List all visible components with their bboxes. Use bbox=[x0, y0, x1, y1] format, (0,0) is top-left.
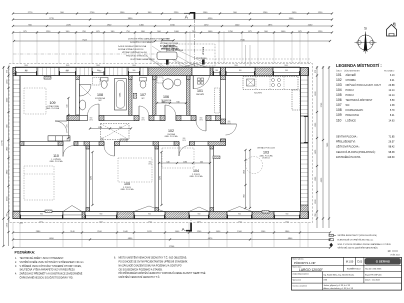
svg-text:Vypracoval: Vypracoval bbox=[293, 278, 302, 281]
svg-text:800: 800 bbox=[101, 138, 104, 140]
svg-text:ÚČEL MÍSTNOSTI: ÚČEL MÍSTNOSTI bbox=[344, 70, 360, 73]
svg-text:CELKOVÁ PLOCHA (PODLAHOVÁ) :: CELKOVÁ PLOCHA (PODLAHOVÁ) : bbox=[336, 151, 376, 154]
terrace door 110 bbox=[63, 212, 82, 219]
svg-text:TECHNICKÁ MÍSTNOST: TECHNICKÁ MÍSTNOST bbox=[346, 99, 373, 102]
svg-text:800: 800 bbox=[200, 118, 203, 120]
interior dim chain hallway bbox=[90, 128, 131, 130]
svg-text:900: 900 bbox=[285, 70, 288, 72]
svg-text:1970: 1970 bbox=[100, 140, 104, 142]
interior dim chain room 104 bbox=[161, 152, 163, 205]
svg-text:106: 106 bbox=[163, 95, 169, 99]
svg-text:ZÁDVEŘÍ: ZÁDVEŘÍ bbox=[196, 93, 204, 96]
svg-text:110: 110 bbox=[336, 118, 342, 122]
svg-text:2640: 2640 bbox=[238, 222, 242, 224]
svg-text:MÍSTNOST: MÍSTNOST bbox=[161, 101, 171, 104]
tech room 106 equipment bbox=[163, 79, 173, 89]
svg-text:8.21: 8.21 bbox=[390, 114, 395, 117]
svg-text:107: 107 bbox=[140, 93, 146, 97]
house logo icon bbox=[387, 25, 397, 37]
svg-text:+400: +400 bbox=[19, 223, 23, 225]
svg-text:960: 960 bbox=[244, 194, 246, 197]
dimension line bottom row 3 bbox=[13, 247, 330, 249]
svg-text:PO DOHODĚ SE SVÝM PROJEKTANTEM: PO DOHODĚ SE SVÝM PROJEKTANTEM UPŘESNÍ S… bbox=[119, 261, 188, 264]
svg-text:Adresa, obec/město, p.č. XX,: Adresa, obec/město, p.č. XX, k.ú. XX bbox=[324, 287, 354, 290]
svg-text:17246: 17246 bbox=[169, 246, 175, 248]
svg-text:2640: 2640 bbox=[99, 222, 103, 224]
dimension line left col 2 bbox=[8, 66, 10, 246]
svg-text:1970: 1970 bbox=[199, 119, 203, 121]
furniture dashed outlines bbox=[24, 166, 54, 200]
svg-text:ZÁKL. PLOCHA: ZÁKL. PLOCHA bbox=[165, 135, 179, 138]
svg-text:VOŠK 2002: VOŠK 2002 bbox=[390, 253, 400, 256]
bathroom 108 fixtures (tub, WC, shower, basin, washer) bbox=[115, 79, 127, 111]
canopy gable outline bbox=[184, 64, 195, 68]
svg-text:12.14: 12.14 bbox=[389, 89, 396, 92]
svg-text:M 1:50: M 1:50 bbox=[346, 260, 354, 263]
svg-text:900: 900 bbox=[99, 71, 102, 73]
svg-text:2640: 2640 bbox=[66, 65, 70, 67]
svg-text:2640: 2640 bbox=[24, 65, 28, 67]
svg-text:109: 109 bbox=[50, 101, 56, 105]
svg-text:NA ZÁKLADĚ OSAZENÍ DOMU NA POZ: NA ZÁKLADĚ OSAZENÍ DOMU NA POZEMKU A ODS… bbox=[119, 264, 182, 267]
radiator in 109 bbox=[48, 136, 70, 141]
svg-text:29.88 m2: 29.88 m2 bbox=[262, 158, 270, 160]
section marker A (top) bbox=[184, 12, 195, 14]
svg-text:900: 900 bbox=[133, 70, 136, 72]
svg-text:2640: 2640 bbox=[197, 222, 201, 224]
svg-text:OD SOUSEDNÍCH POZEMKŮ A STAVEB: OD SOUSEDNÍCH POZEMKŮ A STAVEB. bbox=[119, 268, 163, 271]
svg-text:540: 540 bbox=[119, 127, 122, 129]
svg-text:ROZMĚRY DÍLU: ROZMĚRY DÍLU bbox=[347, 267, 361, 270]
interior wall junction hatch blocks bbox=[76, 76, 80, 80]
svg-text:108: 108 bbox=[97, 93, 103, 97]
svg-text:VĚTRÁNÍ: VĚTRÁNÍ bbox=[202, 46, 205, 55]
extension lines top bbox=[12, 31, 14, 64]
svg-text:PLOCHA m²: PLOCHA m² bbox=[384, 70, 395, 73]
svg-text:KOUPELNA/WC: KOUPELNA/WC bbox=[346, 109, 364, 112]
svg-text:900: 900 bbox=[215, 70, 218, 72]
compass (north arrow) bbox=[358, 35, 373, 50]
svg-text:106: 106 bbox=[336, 98, 342, 102]
svg-text:119.30: 119.30 bbox=[387, 156, 395, 159]
svg-text:800: 800 bbox=[90, 118, 93, 120]
svg-text:ZASTAVĚNÁ PLOCHA: ZASTAVĚNÁ PLOCHA bbox=[336, 156, 361, 159]
svg-text:2640: 2640 bbox=[96, 65, 100, 67]
dimension line left col 1 bbox=[3, 66, 5, 246]
svg-text:105: 105 bbox=[336, 93, 342, 97]
svg-text:104: 104 bbox=[193, 169, 199, 173]
svg-text:DODRŽTE V ODSTAVENÍ: DODRŽTE V ODSTAVENÍ bbox=[130, 41, 154, 44]
svg-text:800: 800 bbox=[183, 138, 186, 140]
svg-text:1.: 1. bbox=[15, 258, 17, 260]
svg-text:DOPLŇTE PŘED ZAHÁJENÍM VÝSTAVB: DOPLŇTE PŘED ZAHÁJENÍM VÝSTAVBY NP. bbox=[128, 38, 170, 41]
svg-text:505: 505 bbox=[200, 161, 203, 163]
svg-text:3.13: 3.13 bbox=[390, 74, 395, 77]
svg-text:101: 101 bbox=[197, 89, 203, 93]
attic access hatch bbox=[101, 124, 130, 140]
svg-text:98.38: 98.38 bbox=[389, 151, 396, 154]
svg-text:940: 940 bbox=[176, 101, 179, 103]
roof dashed lines above living bbox=[200, 58, 311, 60]
heating units bbox=[44, 77, 51, 80]
svg-text:ZÁKL. PLOCHA: ZÁKL. PLOCHA bbox=[121, 188, 135, 191]
interior dim chain room 106 bbox=[157, 102, 186, 104]
section marker A (bottom) bbox=[185, 230, 192, 232]
svg-text:UMÍSTĚNÍ VENKOVNÍ JEDNOTKY T.Č: UMÍSTĚNÍ VENKOVNÍ JEDNOTKY T.Č. bbox=[119, 276, 161, 279]
kitchen counter 103 bbox=[243, 77, 298, 90]
svg-text:800: 800 bbox=[67, 138, 70, 140]
svg-text:900: 900 bbox=[286, 214, 289, 216]
svg-text:POKOJ: POKOJ bbox=[346, 94, 355, 97]
svg-text:103: 103 bbox=[263, 151, 269, 155]
shoe rack squares in 101 bbox=[198, 78, 201, 81]
svg-text:104: 104 bbox=[336, 88, 342, 92]
svg-text:900: 900 bbox=[148, 214, 151, 216]
svg-text:800: 800 bbox=[149, 162, 152, 164]
svg-text:1180: 1180 bbox=[183, 161, 187, 163]
svg-text:540: 540 bbox=[66, 105, 68, 108]
svg-text:PRŮCHOD STĚNOU 2x: PRŮCHOD STĚNOU 2x bbox=[126, 55, 148, 58]
svg-text:Ing. Radek Bláha, Ing. Zdeněk: Ing. Radek Bláha, Ing. Zdeněk Okurka bbox=[324, 274, 355, 276]
svg-text:Stupeň PD DSP-001: Stupeň PD DSP-001 bbox=[365, 273, 381, 276]
svg-text:LOŽNICE: LOŽNICE bbox=[346, 119, 357, 122]
dimension line right col 1 bbox=[316, 66, 318, 228]
svg-text:6.: 6. bbox=[114, 258, 116, 260]
svg-text:POZNÁMKA:: POZNÁMKA: bbox=[15, 250, 36, 255]
svg-text:G SERVIS: G SERVIS bbox=[376, 260, 390, 264]
svg-text:ZÁDVEŘÍ: ZÁDVEŘÍ bbox=[346, 74, 357, 77]
svg-text:Datum : 1.12.2022: Datum : 1.12.2022 bbox=[365, 279, 380, 282]
svg-text:2.: 2. bbox=[15, 262, 17, 264]
svg-text:9.21: 9.21 bbox=[390, 79, 395, 82]
interior dim chain living room vertical bbox=[245, 150, 247, 208]
interior dim chain room 109 bbox=[67, 98, 69, 138]
svg-text:29.88: 29.88 bbox=[389, 84, 396, 87]
svg-text:UŽITKOVÁ PLOCHA :: UŽITKOVÁ PLOCHA : bbox=[336, 146, 360, 149]
terrace door swing marks living bbox=[134, 206, 252, 212]
wardrobe in 101 bbox=[215, 88, 220, 113]
svg-text:110: 110 bbox=[53, 154, 59, 158]
svg-text:ELEKTRICKÉ OTOPNÉ TĚLESO TAC x: ELEKTRICKÉ OTOPNÉ TĚLESO TAC xxx bbox=[338, 239, 374, 242]
title block bbox=[292, 257, 402, 290]
entry door bbox=[192, 68, 210, 76]
svg-text:14.63: 14.63 bbox=[389, 119, 396, 122]
dimension line top row 1 (overall) bbox=[13, 13, 332, 15]
svg-text:2x ČELNÍ DESKA: 2x ČELNÍ DESKA bbox=[160, 45, 176, 48]
svg-text:107: 107 bbox=[336, 103, 342, 107]
dimension line right col 3 bbox=[328, 66, 330, 228]
svg-text:PRACOVNA: PRACOVNA bbox=[346, 114, 360, 117]
svg-text:PŘI PŘÍPADNÉM UMÍSTĚNÍ JEDNOTK: PŘI PŘÍPADNÉM UMÍSTĚNÍ JEDNOTKY DOPORUČU… bbox=[119, 272, 206, 275]
svg-text:VĚTRACÍ MŘÍŽKA 150x150: VĚTRACÍ MŘÍŽKA 150x150 bbox=[122, 51, 148, 54]
svg-text:98.42: 98.42 bbox=[389, 146, 396, 149]
svg-text:TECHNICKÉ ZMĚNY JSOU VYHRAZENY: TECHNICKÉ ZMĚNY JSOU VYHRAZENY. bbox=[20, 257, 65, 260]
svg-text:900: 900 bbox=[40, 214, 43, 216]
svg-text:1970: 1970 bbox=[227, 123, 231, 125]
svg-text:PŘÍSTŘEŠEK: PŘÍSTŘEŠEK bbox=[196, 57, 208, 60]
svg-text:108: 108 bbox=[336, 108, 342, 112]
svg-text:Č:03: Č:03 bbox=[357, 260, 363, 263]
svg-text:2640: 2640 bbox=[284, 65, 288, 67]
svg-text:POKOJ: POKOJ bbox=[346, 89, 355, 92]
svg-text:1970: 1970 bbox=[182, 140, 186, 142]
dimension line right col 2 bbox=[322, 66, 324, 228]
svg-text:1950: 1950 bbox=[244, 170, 246, 174]
svg-text:102: 102 bbox=[336, 78, 342, 82]
svg-text:540: 540 bbox=[166, 161, 169, 163]
svg-text:1970: 1970 bbox=[141, 119, 145, 121]
svg-text:3460: 3460 bbox=[160, 176, 162, 180]
svg-text:LEGENDA MÍSTNOSTÍ :: LEGENDA MÍSTNOSTÍ : bbox=[336, 63, 382, 68]
interior walls bbox=[76, 76, 80, 116]
exterior wall masonry hatch segments bbox=[13, 68, 16, 76]
svg-text:5.59: 5.59 bbox=[390, 99, 395, 102]
exterior wall band bbox=[13, 68, 309, 76]
svg-text:OBÝVACÍ POKOJ+KUCH. KOUT: OBÝVACÍ POKOJ+KUCH. KOUT bbox=[346, 84, 382, 87]
interior dim chain room 105 bbox=[92, 152, 94, 205]
svg-text:970: 970 bbox=[66, 125, 68, 128]
svg-text:900: 900 bbox=[100, 214, 103, 216]
svg-text:2xSDK DESKA VODĚODOLNÁ: 2xSDK DESKA VODĚODOLNÁ bbox=[118, 45, 147, 48]
svg-text:S: S bbox=[364, 26, 367, 31]
svg-text:ZÁKL. PLOCHA: ZÁKL. PLOCHA bbox=[190, 175, 204, 178]
dimension line top row 4 bbox=[13, 32, 332, 34]
svg-text:12.14: 12.14 bbox=[389, 94, 396, 97]
entry canopy dashed outline bbox=[167, 44, 216, 66]
svg-text:2640: 2640 bbox=[132, 65, 136, 67]
svg-text:VĚTRACÍ POTRUBÍ: VĚTRACÍ POTRUBÍ bbox=[160, 42, 179, 45]
extension lines bottom bbox=[12, 222, 14, 247]
svg-text:VNITŘNÍ JEDNOTKA TČ (VZDUCH-VZ: VNITŘNÍ JEDNOTKA TČ (VZDUCH-VZDUCH) bbox=[338, 234, 378, 237]
window sill line bottom bbox=[20, 219, 300, 221]
svg-text:LARGO 120/30°: LARGO 120/30° bbox=[299, 268, 324, 272]
svg-text:103: 103 bbox=[336, 83, 342, 87]
svg-text:ČÁRKOVANĚ NEJSOU SOUČÁSTÍ DODÁ: ČÁRKOVANĚ NEJSOU SOUČÁSTÍ DODÁVKY RD. bbox=[20, 277, 74, 280]
svg-text:Tfax 05 / XXX XXXX: Tfax 05 / XXX XXXX bbox=[365, 269, 382, 271]
svg-text:900: 900 bbox=[198, 214, 201, 216]
svg-text:ZÁKL. PLOCHA: ZÁKL. PLOCHA bbox=[46, 107, 60, 110]
svg-text:KUCHYŇ: KUCHYŇ bbox=[254, 92, 262, 95]
svg-text:VĚTŠÍ NEŽ 200 KG (ZAJIŠTĚNÍ NA: VĚTŠÍ NEŽ 200 KG (ZAJIŠTĚNÍ NA MONTÁŽI) bbox=[338, 247, 378, 250]
svg-text:Jméno, příjmení, p.č. XX, k.ú: Jméno, příjmení, p.č. XX, k.ú. XX bbox=[324, 285, 351, 287]
svg-text:5.79: 5.79 bbox=[390, 109, 395, 112]
svg-text:4.: 4. bbox=[15, 274, 17, 276]
svg-text:1970: 1970 bbox=[148, 163, 152, 165]
dimension line top row 5 (interior) bbox=[14, 40, 330, 42]
svg-text:750: 750 bbox=[25, 71, 28, 73]
dimension line bottom row 2 bbox=[13, 239, 330, 241]
svg-text:900: 900 bbox=[238, 214, 241, 216]
dimension line bottom row 1 bbox=[13, 232, 330, 234]
svg-text:2640: 2640 bbox=[234, 65, 238, 67]
svg-text:2640: 2640 bbox=[285, 222, 289, 224]
svg-text:800: 800 bbox=[228, 121, 231, 123]
svg-text:OBYTNÁ PLOCHA :: OBYTNÁ PLOCHA : bbox=[336, 136, 358, 139]
WC 107 fixture bbox=[140, 78, 147, 82]
svg-text:71.85: 71.85 bbox=[389, 136, 396, 139]
svg-text:105: 105 bbox=[124, 182, 130, 186]
svg-text:109: 109 bbox=[336, 113, 342, 117]
canopy dim 810 bbox=[162, 39, 174, 41]
svg-text:MÍSTO UMÍSTĚNÍ VENKOVNÍ JEDNOT: MÍSTO UMÍSTĚNÍ VENKOVNÍ JEDNOTKY T.Č. (V… bbox=[119, 257, 188, 260]
symbol legend bbox=[329, 234, 334, 236]
svg-text:VNITŘNÍ DVEŘE JSOU KÓTOVÁNY S: VNITŘNÍ DVEŘE JSOU KÓTOVÁNY S PŘESAHEM ±… bbox=[20, 261, 84, 264]
svg-text:900: 900 bbox=[66, 71, 69, 73]
svg-text:2640: 2640 bbox=[148, 222, 152, 224]
svg-text:1970: 1970 bbox=[66, 140, 70, 142]
svg-text:PŘÍSLUŠENSTVÍ :: PŘÍSLUŠENSTVÍ : bbox=[336, 141, 357, 144]
svg-text:SKUTEČNÁ VÝŠKA PARAPETŮ VIZ VÝ: SKUTEČNÁ VÝŠKA PARAPETŮ VIZ VÝKRES ŘEZU bbox=[20, 269, 76, 272]
svg-text:WC: WC bbox=[346, 104, 350, 107]
svg-text:810: 810 bbox=[166, 39, 169, 41]
roof overhang dashed outline bbox=[9, 64, 313, 223]
window sill line top bbox=[15, 66, 300, 68]
svg-text:900: 900 bbox=[239, 70, 242, 72]
svg-text:3.: 3. bbox=[15, 266, 17, 268]
svg-text:ZAŘIZOVACÍ PŘEDMĚTY A KONSTRUK: ZAŘIZOVACÍ PŘEDMĚTY A KONSTRUKCE ZNÁZORN… bbox=[20, 273, 83, 276]
dimension line top row 3 bbox=[13, 25, 332, 27]
svg-text:PŮDORYS 1.NP: PŮDORYS 1.NP bbox=[294, 260, 316, 265]
svg-text:ZÁKL. PLOCHA: ZÁKL. PLOCHA bbox=[50, 160, 64, 163]
svg-text:101: 101 bbox=[336, 73, 342, 77]
svg-text:3460: 3460 bbox=[91, 176, 93, 180]
svg-text:V PŘÍZEMÍ JSOU KÓTOVÁNY STAVEB: V PŘÍZEMÍ JSOU KÓTOVÁNY STAVEBNÍ OTVORY … bbox=[20, 265, 82, 268]
interior door leaves and swing arcs bbox=[55, 120, 67, 122]
svg-text:1970: 1970 bbox=[89, 119, 93, 121]
roof ridge dashed line bbox=[13, 53, 163, 55]
svg-text:1180: 1180 bbox=[98, 127, 102, 129]
windows bbox=[16, 68, 38, 76]
svg-text:SOKL Z VYSOCE PEVNÉHO ZDICÍHO: SOKL Z VYSOCE PEVNÉHO ZDICÍHO MATERIÁLU … bbox=[338, 243, 392, 246]
dimension line top row 2 bbox=[13, 19, 332, 21]
interior dim chain room 104 bbox=[159, 162, 210, 164]
section line A-A dash-dot bbox=[193, 19, 195, 67]
svg-text:2.38: 2.38 bbox=[390, 104, 395, 107]
svg-text:800: 800 bbox=[142, 118, 145, 120]
svg-text:NOSNÁ STĚNA PODKROVÍ: NOSNÁ STĚNA PODKROVÍ bbox=[118, 48, 144, 51]
svg-text:26.57: 26.57 bbox=[389, 141, 396, 144]
svg-text:CHODBA: CHODBA bbox=[346, 79, 357, 82]
svg-text:OBÝVACÍ POKOJ+KK: OBÝVACÍ POKOJ+KK bbox=[257, 147, 276, 150]
svg-text:2640: 2640 bbox=[39, 222, 43, 224]
svg-text:10770: 10770 bbox=[1, 139, 3, 145]
svg-text:Investor–stavebník: Investor–stavebník bbox=[293, 285, 307, 288]
svg-text:102: 102 bbox=[168, 129, 174, 133]
